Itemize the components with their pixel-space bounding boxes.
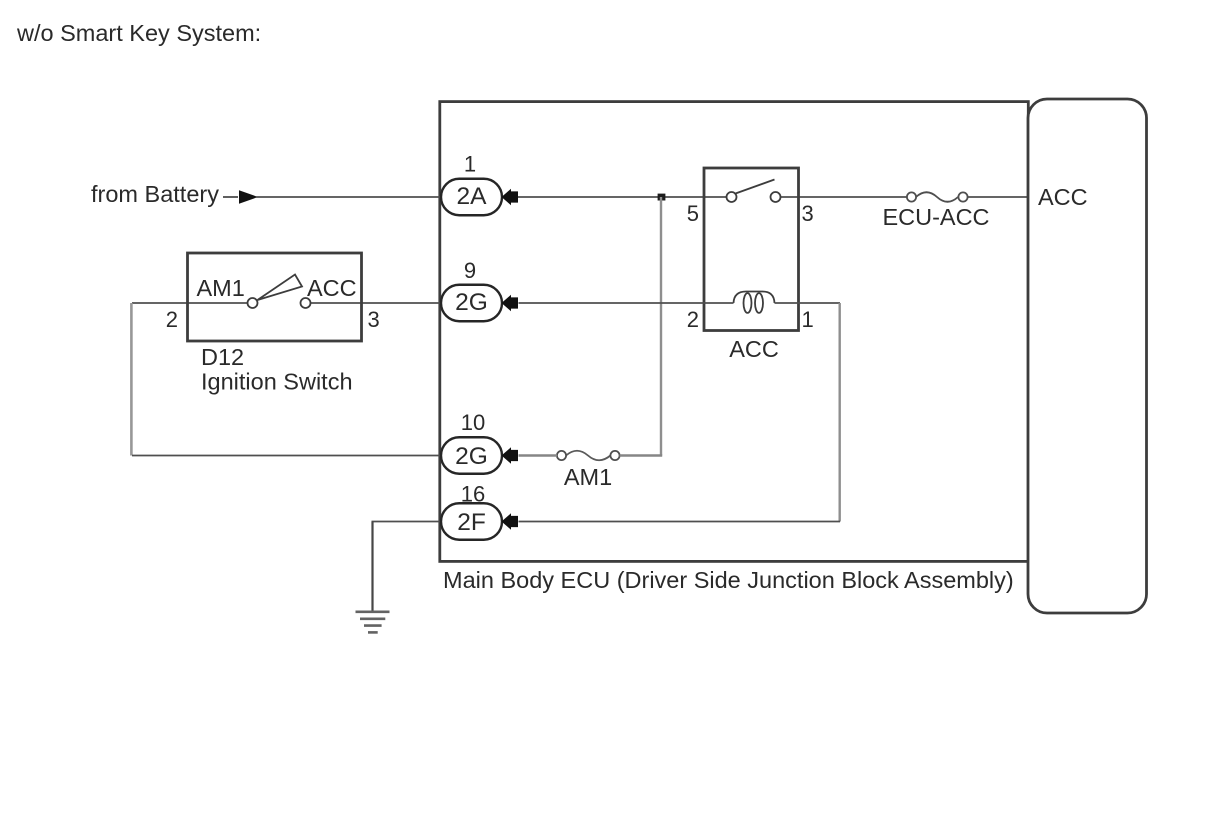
wire fuse to ACC connector — [968, 196, 1028, 198]
connector pin 2G (10) — [441, 437, 502, 474]
relay coil — [734, 292, 775, 313]
switch contact AM1 — [248, 298, 258, 308]
svg-text:2: 2 — [166, 307, 178, 332]
svg-text:AM1: AM1 — [197, 275, 245, 301]
svg-text:ECU-ACC: ECU-ACC — [882, 204, 989, 230]
svg-text:5: 5 — [687, 201, 699, 226]
wire relay coil pin 1 right — [775, 302, 841, 304]
wire 2G(10) to fuse AM1 — [519, 454, 558, 456]
fuse AM1 — [557, 451, 620, 461]
connector pin 2G (9) — [441, 285, 502, 322]
wire to 2F — [519, 521, 841, 523]
wire 2A to relay pin 5 — [518, 196, 727, 198]
arrow into 2F — [502, 513, 519, 530]
wire left loop down — [130, 303, 133, 456]
svg-text:w/o Smart Key System:: w/o Smart Key System: — [16, 20, 261, 46]
svg-text:2F: 2F — [457, 509, 486, 536]
svg-text:ACC: ACC — [307, 275, 357, 301]
svg-text:2A: 2A — [457, 183, 488, 210]
wire battery to 2A — [256, 196, 441, 198]
wire relay pin 3 to fuse ECU-ACC — [781, 196, 908, 198]
svg-text:ACC: ACC — [729, 336, 779, 362]
node junction on 2A wire — [658, 194, 666, 201]
wire down to ground — [371, 522, 373, 612]
fuse ECU-ACC — [907, 192, 968, 202]
ignition switch D12 box — [188, 253, 362, 341]
arrow into 2G(9) — [502, 295, 519, 312]
arrow into 2G(10) — [502, 447, 519, 464]
relay contact blade — [736, 180, 775, 194]
svg-text:2: 2 — [687, 307, 699, 332]
svg-text:Main Body ECU (Driver Side Jun: Main Body ECU (Driver Side Junction Bloc… — [443, 567, 1014, 593]
svg-text:AM1: AM1 — [564, 464, 612, 490]
wire ground to 2F — [372, 521, 442, 523]
svg-text:1: 1 — [802, 307, 814, 332]
wire fuse AM1 to junction line — [620, 454, 663, 456]
ground — [356, 612, 390, 633]
svg-text:2G: 2G — [455, 289, 488, 316]
switch blade — [258, 275, 303, 301]
wire down right side — [839, 303, 841, 522]
connector pin 2A — [441, 179, 502, 216]
svg-text:3: 3 — [368, 307, 380, 332]
wire D12 pin 3 to 2G(9) — [311, 302, 442, 304]
svg-text:3: 3 — [802, 201, 814, 226]
main body ECU box — [440, 102, 1029, 562]
switch contact ACC — [301, 298, 311, 308]
battery arrow — [239, 190, 258, 204]
svg-text:Ignition Switch: Ignition Switch — [201, 369, 353, 395]
svg-text:from Battery: from Battery — [91, 181, 219, 207]
svg-text:D12: D12 — [201, 344, 244, 370]
relay contact circles — [727, 192, 737, 202]
svg-text:2G: 2G — [455, 443, 488, 470]
wire junction down to AM1 fuse — [660, 197, 662, 456]
wire from battery lead — [223, 196, 238, 198]
connector pin 2F — [441, 503, 502, 540]
relay ACC box — [704, 168, 799, 331]
svg-text:16: 16 — [461, 482, 485, 507]
wire D12 pin 2 — [132, 302, 248, 304]
svg-text:10: 10 — [461, 410, 485, 435]
svg-text:1: 1 — [464, 152, 476, 177]
wire left loop to 2G(10) — [132, 455, 441, 457]
arrow into 2A — [502, 189, 519, 206]
wire 2G(9) to relay coil pin 2 — [519, 302, 734, 304]
svg-text:ACC: ACC — [1038, 184, 1088, 210]
ACC connector rounded box — [1028, 99, 1147, 613]
svg-text:9: 9 — [464, 258, 476, 283]
